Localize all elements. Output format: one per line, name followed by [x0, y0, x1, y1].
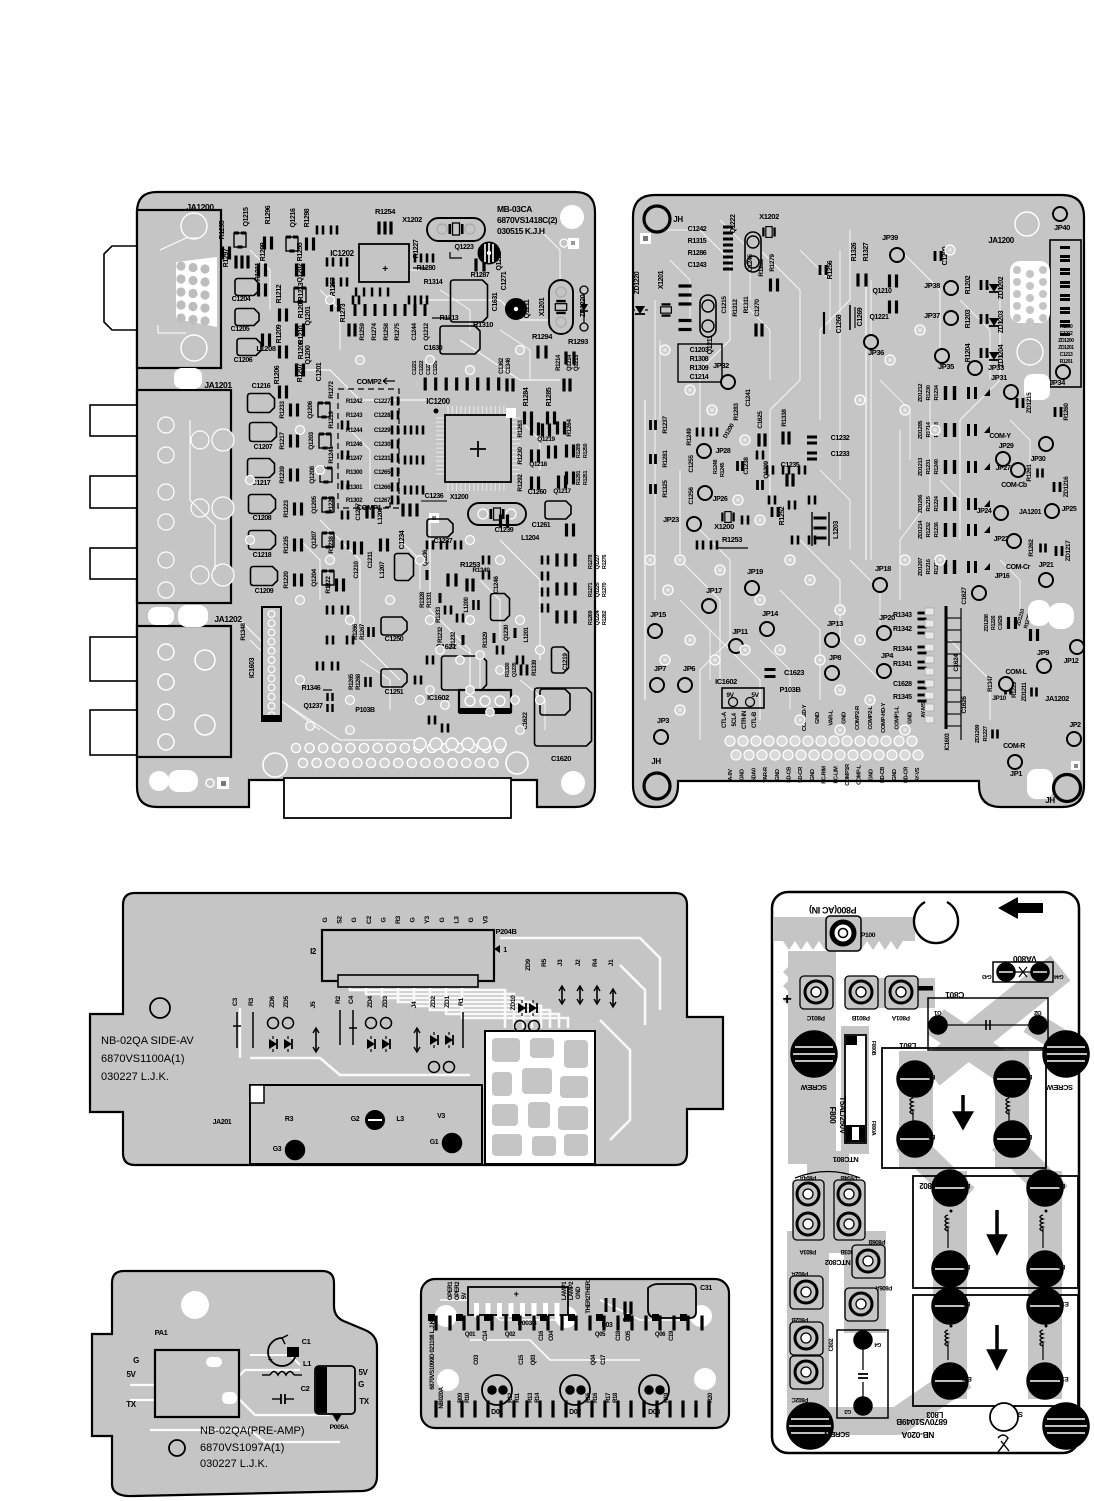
svg-text:R1223: R1223 [283, 500, 290, 518]
svg-text:J4: J4 [411, 1001, 418, 1008]
svg-text:C04: C04 [549, 1330, 555, 1341]
svg-text:R1341: R1341 [893, 661, 912, 668]
svg-text:ZD1220: ZD1220 [634, 271, 641, 294]
svg-text:R1212: R1212 [276, 284, 283, 303]
svg-text:E8: E8 [1058, 1263, 1066, 1269]
mount hole JH top-left [644, 206, 670, 232]
svg-text:Q1201: Q1201 [305, 306, 312, 326]
copper band top sawtooth [785, 917, 903, 941]
svg-text:C1227: C1227 [374, 398, 391, 405]
svg-text:Q1215: Q1215 [243, 207, 250, 227]
svg-text:030515 K.J.H: 030515 K.J.H [497, 226, 545, 236]
capacitor C1207 [250, 423, 277, 442]
svg-text:R1311: R1311 [743, 296, 750, 314]
svg-text:COM-L: COM-L [1006, 669, 1028, 676]
svg-text:Q1203: Q1203 [308, 431, 315, 449]
svg-text:R1330: R1330 [505, 663, 511, 678]
svg-text:JP15: JP15 [650, 610, 666, 619]
jumper JP40 [1053, 207, 1067, 221]
svg-text:ZD3: ZD3 [382, 996, 389, 1008]
pad blob JP34 [1024, 374, 1050, 400]
svg-text:030227 L.J.K.: 030227 L.J.K. [200, 1458, 268, 1470]
svg-text:R1211: R1211 [255, 262, 262, 281]
svg-text:L1204: L1204 [521, 535, 539, 542]
svg-text:ZD4: ZD4 [367, 996, 374, 1008]
svg-text:G: G [322, 917, 329, 922]
svg-text:CTL-B: CTL-B [752, 711, 758, 728]
svg-text:R1214: R1214 [556, 354, 562, 371]
svg-text:Q06: Q06 [655, 1332, 666, 1338]
component row mid board5 [434, 1316, 437, 1331]
svg-text:JP40: JP40 [1054, 223, 1070, 232]
svg-text:R1310: R1310 [473, 320, 493, 329]
svg-text:X1200: X1200 [450, 494, 469, 501]
svg-text:P804B: P804B [840, 1174, 857, 1180]
svg-text:C18: C18 [616, 1330, 622, 1341]
fiducial board1 tr [560, 239, 568, 247]
svg-text:R1233: R1233 [279, 401, 286, 419]
svg-text:C1346: C1346 [506, 357, 512, 374]
svg-text:R1246: R1246 [346, 441, 363, 448]
svg-text:Y3: Y3 [424, 916, 431, 924]
svg-text:V3: V3 [483, 916, 490, 924]
copper band bottom [838, 1384, 952, 1421]
transformer L801 [882, 1048, 1046, 1168]
direction arrow [998, 897, 1043, 919]
jumper JP34 [1056, 365, 1070, 379]
svg-text:R1213: R1213 [298, 282, 305, 301]
svg-text:C1629: C1629 [998, 616, 1004, 631]
svg-text:COM-Y: COM-Y [989, 433, 1011, 440]
jumper JP30 [1039, 437, 1053, 451]
resistor cluster top center [326, 258, 335, 267]
svg-text:Q1222: Q1222 [730, 214, 737, 234]
svg-text:JA1200: JA1200 [186, 202, 214, 212]
svg-text:PC-LIM: PC-LIM [833, 766, 839, 784]
svg-text:C1213: C1213 [1060, 352, 1073, 358]
svg-text:R1281: R1281 [662, 450, 669, 468]
svg-text:R1263: R1263 [517, 420, 524, 438]
svg-text:+: + [382, 264, 388, 275]
svg-text:G2: G2 [351, 1116, 360, 1123]
svg-text:C1266: C1266 [374, 484, 391, 491]
svg-text:R1248: R1248 [713, 460, 719, 475]
svg-text:C1222: C1222 [419, 361, 425, 376]
svg-text:R1234: R1234 [934, 384, 940, 400]
svg-text:TX: TX [359, 1397, 369, 1406]
svg-text:R1259: R1259 [359, 323, 366, 341]
svg-text:JP30: JP30 [1031, 456, 1046, 463]
svg-text:V3: V3 [437, 1113, 445, 1120]
hole ring [150, 998, 170, 1018]
svg-text:C1261: C1261 [532, 522, 551, 529]
copper band L801-L802 [916, 1150, 1048, 1188]
svg-text:C1243: C1243 [688, 262, 707, 269]
svg-text:T5AL/250V: T5AL/250V [838, 1096, 847, 1134]
svg-text:VAR-R: VAR-R [763, 767, 769, 783]
svg-text:Q1224: Q1224 [595, 609, 601, 625]
svg-text:L801: L801 [899, 1041, 917, 1050]
svg-text:6870VS1100A(1): 6870VS1100A(1) [101, 1053, 185, 1065]
svg-text:COMP1-L: COMP1-L [894, 706, 900, 730]
svg-text:R4: R4 [592, 958, 599, 967]
screw top-right [1043, 1031, 1089, 1077]
copper sawtooth edge [783, 935, 903, 950]
svg-text:G: G [439, 917, 446, 922]
svg-text:C1244: C1244 [411, 323, 418, 341]
svg-text:JH: JH [673, 215, 683, 224]
lamp driver D02 [560, 1375, 590, 1405]
svg-text:JP28: JP28 [716, 448, 731, 455]
node E12 [932, 1363, 968, 1399]
pad P801B [845, 976, 878, 1009]
connector tab RCA 2 [90, 476, 137, 508]
svg-text:R1294: R1294 [532, 332, 553, 341]
svg-text:ZD1200: ZD1200 [1058, 338, 1074, 344]
svg-text:SDA0: SDA0 [751, 768, 757, 782]
svg-text:C4: C4 [348, 995, 355, 1004]
svg-text:VAR-L: VAR-L [828, 710, 834, 726]
svg-text:R1329: R1329 [483, 631, 489, 648]
svg-text:R1284: R1284 [523, 387, 530, 406]
svg-text:6870VS1049B: 6870VS1049B [896, 1417, 947, 1427]
svg-text:R1243: R1243 [346, 412, 363, 419]
shield box JA201 [250, 1085, 482, 1164]
svg-text:C05: C05 [626, 1330, 632, 1341]
svg-text:R1298: R1298 [304, 208, 311, 227]
svg-text:C1246: C1246 [493, 576, 500, 594]
svg-text:R1256: R1256 [827, 260, 834, 279]
fiducial 2 [640, 233, 651, 244]
svg-text:G2: G2 [1033, 1009, 1041, 1015]
svg-text:JA1201: JA1201 [204, 380, 232, 390]
svg-text:C1215: C1215 [721, 296, 728, 314]
coil L803a [945, 1330, 948, 1346]
svg-text:R1309: R1309 [690, 365, 709, 372]
svg-text:Q03: Q03 [531, 1354, 537, 1365]
svg-text:JP23: JP23 [663, 515, 679, 524]
svg-text:E2: E2 [1025, 1073, 1033, 1079]
svg-text:6870VS1097A(1): 6870VS1097A(1) [200, 1442, 284, 1454]
component row bars [354, 304, 427, 316]
svg-text:C1203: C1203 [690, 347, 709, 354]
pad blob 2 [148, 607, 174, 625]
svg-text:E1: E1 [928, 1073, 936, 1079]
svg-text:Q1208: Q1208 [309, 465, 316, 483]
svg-text:L1: L1 [303, 1359, 311, 1368]
svg-text:R1260: R1260 [1063, 403, 1070, 421]
svg-text:C1269: C1269 [857, 307, 864, 326]
svg-text:R1273: R1273 [340, 303, 347, 322]
copper band to C801 [860, 978, 920, 1008]
svg-text:OPER2: OPER2 [455, 1281, 461, 1300]
svg-text:C1216: C1216 [252, 383, 271, 390]
svg-text:R1314: R1314 [424, 279, 443, 286]
svg-text:R1308: R1308 [690, 356, 709, 363]
pad sq [429, 513, 439, 523]
pad blob near JH [1027, 769, 1053, 799]
svg-text:R3: R3 [395, 915, 402, 924]
svg-text:COM-Cb: COM-Cb [1001, 482, 1027, 489]
svg-text:R1312: R1312 [732, 299, 739, 317]
jumper JP12 [1070, 640, 1084, 654]
trace ring 1 [1015, 212, 1039, 236]
hole b5 2 [555, 1306, 577, 1328]
pad sq2 [506, 408, 516, 418]
svg-text:C3: C3 [232, 997, 239, 1006]
svg-text:R1343: R1343 [893, 612, 912, 619]
svg-text:R1215: R1215 [926, 495, 932, 511]
svg-text:ZD10: ZD10 [510, 995, 517, 1011]
svg-text:COM-R: COM-R [1003, 743, 1025, 750]
capacitor C1620 [535, 688, 592, 746]
svg-text:P100: P100 [861, 932, 876, 939]
svg-text:Q1202: Q1202 [297, 263, 304, 283]
svg-text:OPER1: OPER1 [448, 1281, 454, 1300]
svg-text:R1264: R1264 [566, 419, 573, 437]
svg-text:C17: C17 [601, 1354, 607, 1365]
svg-text:ZD1217: ZD1217 [1065, 540, 1072, 562]
svg-text:GND: GND [908, 712, 914, 724]
svg-text:R1327: R1327 [863, 242, 870, 261]
svg-text:GND: GND [740, 769, 746, 781]
svg-text:C1231: C1231 [374, 455, 391, 462]
svg-text:GND: GND [775, 769, 781, 781]
svg-text:R1278: R1278 [588, 555, 594, 570]
capacitor C1209 [251, 567, 278, 586]
svg-text:R13: R13 [528, 1392, 534, 1403]
svg-text:C1229: C1229 [374, 427, 391, 434]
svg-text:R1220: R1220 [283, 571, 290, 589]
svg-text:R1347: R1347 [988, 675, 994, 692]
resistor cluster mid left [341, 421, 350, 430]
svg-text:R1235: R1235 [283, 536, 290, 554]
capacitor C1216 [248, 394, 275, 413]
svg-text:C15: C15 [519, 1354, 525, 1365]
svg-text:C1631: C1631 [492, 292, 499, 311]
svg-text:R1286: R1286 [688, 250, 707, 257]
copper band pads column [808, 1172, 865, 1400]
svg-text:R1328: R1328 [420, 591, 426, 608]
svg-text:5V: 5V [359, 1368, 369, 1377]
svg-text:G: G [358, 1380, 364, 1389]
svg-text:R1236: R1236 [934, 521, 940, 537]
coil L802b [1040, 1215, 1043, 1231]
svg-text:IC1202: IC1202 [330, 249, 354, 258]
svg-text:C1205: C1205 [231, 326, 250, 333]
svg-text:CTR-IN: CTR-IN [742, 711, 748, 729]
svg-text:Q1207: Q1207 [311, 530, 318, 548]
node G2 pad [1029, 1016, 1047, 1034]
svg-text:P204B: P204B [496, 927, 518, 936]
svg-text:ZD1201: ZD1201 [1058, 345, 1074, 351]
svg-text:ZD1: ZD1 [444, 996, 451, 1008]
ic C1624 footprint [945, 606, 948, 729]
copper band cross to L801 [948, 1030, 1010, 1072]
svg-text:SD-CR: SD-CR [798, 767, 804, 783]
svg-text:E4: E4 [928, 1133, 936, 1139]
svg-text:R1291: R1291 [576, 471, 582, 486]
svg-text:R1226: R1226 [991, 616, 997, 631]
svg-text:L1203: L1203 [833, 521, 840, 539]
svg-text:SCREW: SCREW [823, 1430, 850, 1439]
node G3b pad [854, 1397, 872, 1415]
svg-text:P005A: P005A [330, 1424, 349, 1431]
copper band right edge [1040, 1028, 1072, 1048]
connector JA1200 [137, 210, 221, 368]
trace maze box [485, 1031, 595, 1164]
svg-text:C1255: C1255 [688, 455, 695, 473]
node G1 pad [929, 1016, 947, 1034]
svg-text:R1344: R1344 [893, 646, 912, 653]
svg-text:R1289: R1289 [576, 444, 582, 459]
svg-text:R1209: R1209 [276, 324, 283, 343]
svg-text:R1231: R1231 [926, 458, 932, 474]
copper band diagonal VA800 [942, 978, 1048, 1063]
svg-text:NB020A: NB020A [438, 1386, 445, 1408]
svg-text:R17: R17 [606, 1392, 612, 1403]
screw bottom-right [1043, 1403, 1089, 1449]
svg-text:R1272: R1272 [328, 381, 335, 399]
svg-text:R1293: R1293 [568, 337, 588, 346]
svg-text:GND: GND [815, 712, 821, 724]
svg-text:R1232: R1232 [926, 522, 932, 537]
svg-text:COMP1R: COMP1R [845, 764, 851, 786]
svg-text:P802C: P802C [791, 1396, 808, 1402]
bottom edge connector P1400 [284, 778, 511, 818]
pad P801C [800, 976, 833, 1009]
svg-text:C1207: C1207 [254, 444, 273, 451]
resistor cluster board2 mid [766, 466, 775, 475]
svg-text:R1348: R1348 [240, 623, 247, 641]
svg-text:Q02: Q02 [505, 1332, 516, 1338]
svg-text:R1230: R1230 [517, 447, 524, 465]
svg-text:C1620: C1620 [551, 754, 571, 763]
svg-text:NTC801: NTC801 [833, 1155, 859, 1164]
svg-text:E5: E5 [963, 1182, 971, 1188]
svg-text:R1222: R1222 [325, 576, 332, 594]
svg-text:C1234: C1234 [399, 530, 406, 549]
svg-text:ZD1208: ZD1208 [984, 614, 990, 632]
svg-text:E12: E12 [961, 1375, 972, 1381]
copper L802-L803 [950, 1274, 1045, 1308]
svg-text:R1251: R1251 [583, 471, 589, 486]
lamp driver D03 [639, 1375, 669, 1405]
svg-text:GND: GND [892, 769, 898, 781]
svg-text:P802B: P802B [791, 1316, 808, 1322]
svg-text:C1265: C1265 [374, 469, 391, 476]
svg-text:PC-RIM: PC-RIM [822, 766, 828, 784]
svg-text:JP27: JP27 [996, 465, 1011, 472]
svg-text:JP3: JP3 [657, 716, 669, 725]
node E10 [1027, 1288, 1063, 1324]
VGA hole pattern [176, 257, 217, 327]
hole blob 2 [1048, 603, 1074, 629]
svg-text:X1202: X1202 [402, 215, 422, 224]
svg-text:C1627: C1627 [961, 587, 968, 605]
hole bottom-left 2 [168, 770, 198, 792]
capacitor C1208 [249, 495, 276, 514]
capacitor C1218 [249, 531, 276, 550]
svg-text:ZD1214: ZD1214 [918, 520, 924, 539]
svg-text:JP10: JP10 [992, 695, 1006, 702]
svg-text:C1211: C1211 [367, 551, 374, 569]
svg-text:R1265: R1265 [349, 673, 355, 690]
svg-text:R1295: R1295 [219, 220, 226, 239]
svg-text:GND: GND [842, 712, 848, 724]
svg-text:MB-03CA: MB-03CA [497, 204, 532, 214]
svg-text:JP11: JP11 [732, 627, 748, 636]
svg-text:6870VS1418C(2): 6870VS1418C(2) [497, 215, 558, 225]
svg-text:Q1205: Q1205 [311, 495, 318, 513]
svg-text:L3: L3 [396, 1116, 404, 1123]
svg-text:JP12: JP12 [1064, 658, 1079, 665]
svg-text:G3: G3 [273, 1146, 282, 1153]
svg-text:R1: R1 [458, 997, 465, 1006]
mount circle br [506, 752, 528, 774]
svg-text:JP13: JP13 [827, 619, 843, 628]
board NB-02QA PRE-AMP outline [92, 1271, 377, 1496]
svg-text:ZD1211: ZD1211 [1022, 682, 1028, 702]
svg-text:X1201: X1201 [658, 270, 665, 289]
svg-text:Q1200: Q1200 [305, 345, 312, 365]
svg-text:R1267: R1267 [360, 623, 366, 640]
svg-text:G: G [133, 1356, 139, 1365]
svg-text:P801B: P801B [851, 1014, 870, 1021]
fuse F800 [845, 1035, 866, 1143]
svg-text:GND: GND [810, 769, 816, 781]
svg-text:Q1227: Q1227 [595, 554, 601, 569]
svg-text:COMP-L: COMP-L [857, 764, 863, 785]
svg-text:Q1214: Q1214 [567, 354, 573, 371]
mount hole [560, 205, 584, 229]
svg-text:X1200: X1200 [714, 522, 734, 531]
svg-text:R1203: R1203 [965, 309, 972, 328]
svg-text:R1240: R1240 [934, 459, 940, 474]
svg-text:R1232: R1232 [438, 626, 444, 643]
svg-text:R1242: R1242 [346, 398, 363, 405]
node E3 [994, 1121, 1030, 1157]
svg-text:JH: JH [1045, 796, 1055, 805]
svg-text:JP1: JP1 [1010, 769, 1022, 778]
svg-text:R1261: R1261 [1026, 464, 1033, 482]
svg-text:C1201: C1201 [316, 362, 323, 381]
svg-text:R1292: R1292 [517, 474, 524, 492]
svg-text:COMP1: COMP1 [357, 503, 382, 512]
svg-text:JA1202: JA1202 [214, 614, 242, 624]
svg-text:ZD1209: ZD1209 [975, 724, 981, 743]
svg-text:P806B: P806B [868, 1238, 885, 1244]
hole ring b4 [169, 1440, 185, 1456]
svg-text:R1269: R1269 [588, 611, 594, 626]
svg-text:L1208: L1208 [256, 344, 275, 353]
svg-text:P801C: P801C [806, 1014, 825, 1021]
connector tab RCA 1 [90, 405, 137, 436]
copper L802 legs [950, 1188, 1045, 1274]
svg-text:R1271: R1271 [588, 583, 594, 598]
svg-text:PA1: PA1 [155, 1328, 168, 1337]
transformer L802 [913, 1176, 1078, 1288]
svg-text:P804A: P804A [799, 1174, 816, 1180]
svg-text:JP17: JP17 [706, 586, 722, 595]
svg-text:R1204: R1204 [965, 343, 972, 362]
connector tab AV 1 [90, 637, 137, 681]
hole bottom-left 1 [149, 771, 169, 791]
svg-text:G1: G1 [933, 1009, 941, 1015]
svg-text:C1236: C1236 [425, 493, 444, 500]
svg-text:X1201: X1201 [539, 297, 546, 316]
svg-text:R1342: R1342 [893, 626, 912, 633]
